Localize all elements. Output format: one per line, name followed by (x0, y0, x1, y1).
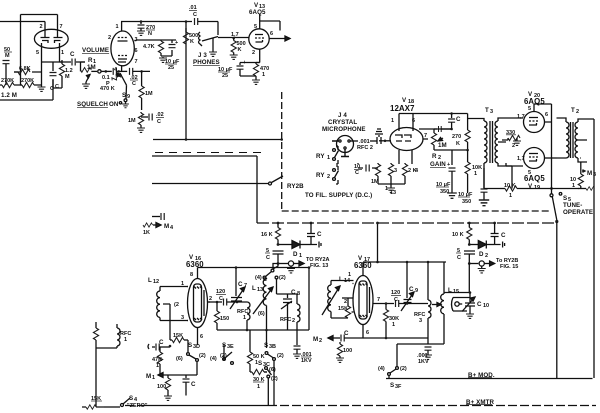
switch S5 junction (555, 220, 558, 223)
wire V19 grid (506, 163, 523, 166)
wire bus A y139 (153, 139, 282, 141)
wire V17 plate rail lower (397, 343, 428, 345)
svg-text:C: C (409, 286, 414, 293)
choke RFC3 (414, 296, 431, 344)
svg-text:100: 100 (343, 348, 352, 354)
label VOLUME (82, 47, 109, 54)
svg-text:1,7: 1,7 (517, 114, 525, 120)
svg-text:RFC 2: RFC 2 (357, 145, 373, 151)
svg-text:S: S (390, 382, 394, 389)
svg-text:C: C (317, 231, 322, 238)
svg-text:2: 2 (319, 338, 322, 344)
wire bus C y183 (152, 183, 268, 185)
meter tap M4 (152, 213, 164, 220)
meter M2 arrow (313, 336, 336, 345)
svg-text:5: 5 (528, 106, 531, 112)
svg-text:3E: 3E (227, 344, 234, 350)
variable capacitor C10 (462, 291, 489, 318)
svg-text:CRYSTAL: CRYSTAL (328, 119, 357, 126)
svg-text:C: C (238, 281, 243, 288)
svg-text:(2: (2 (174, 302, 179, 308)
svg-text:10 K: 10 K (452, 232, 464, 238)
capacitor .001 1KV right (417, 344, 432, 365)
svg-text:RY2B: RY2B (287, 183, 304, 190)
svg-text:TO FIL. SUPPLY (D.C.): TO FIL. SUPPLY (D.C.) (305, 192, 372, 199)
label B+ MOD (468, 372, 495, 379)
svg-text:(6): (6) (269, 367, 276, 373)
wire top rail (21, 14, 58, 16)
capacitor .01 C (189, 5, 218, 35)
svg-text:+: + (175, 40, 178, 46)
svg-text:350: 350 (440, 189, 449, 195)
svg-text:120: 120 (391, 290, 400, 296)
svg-text:270: 270 (452, 134, 461, 140)
svg-text:6: 6 (270, 31, 273, 37)
resistor 500K second (230, 38, 246, 59)
svg-text:OPERATE: OPERATE (563, 209, 593, 216)
jack to RY2A (277, 257, 330, 273)
svg-text:3B: 3B (269, 344, 276, 350)
coil L13 (252, 278, 273, 330)
transformer T3 (468, 107, 506, 168)
svg-text:7: 7 (60, 24, 63, 30)
svg-text:5: 5 (36, 50, 39, 56)
svg-text:T: T (485, 107, 489, 114)
capacitor 50 M left edge (3, 47, 13, 85)
relay contact RY2B (269, 176, 305, 190)
wire squelch node (134, 40, 136, 42)
wire grid rail y20 (121, 21, 192, 23)
svg-text:270K: 270K (1, 78, 14, 84)
switch S3A lower (255, 264, 286, 284)
wire bus B shielded y156 (152, 153, 261, 157)
svg-text:N: N (148, 31, 152, 37)
svg-text:9: 9 (415, 288, 418, 294)
svg-text:C: C (157, 119, 161, 125)
wire S3C riser (224, 344, 268, 406)
resistor 100 M2 (337, 342, 352, 358)
svg-text:13: 13 (257, 287, 263, 293)
capacitor 270 N to ground (137, 22, 155, 38)
coil L14 (322, 276, 354, 318)
choke RFC1 mid (237, 302, 250, 330)
svg-text:S: S (563, 195, 567, 202)
svg-text:1K: 1K (143, 230, 150, 236)
svg-text:GAIN: GAIN (430, 161, 446, 168)
svg-text:12AX7: 12AX7 (390, 104, 415, 113)
coupling capacitor C (60, 51, 86, 66)
microphone J4 (332, 136, 354, 157)
choke RFC2 V16 (280, 294, 300, 330)
label J4 CRYSTAL MICROPHONE (322, 112, 366, 133)
svg-text:L: L (339, 276, 343, 283)
svg-text:K: K (190, 39, 194, 45)
switch S3E (210, 342, 234, 364)
svg-text:S: S (122, 92, 126, 99)
feedthrough capacitor RFC2 (375, 129, 383, 144)
resistor 330 2 (502, 130, 520, 149)
svg-text:470 K: 470 K (100, 86, 115, 92)
resistor 16K (261, 223, 281, 245)
wire V20 plate (534, 104, 552, 122)
svg-text:15K: 15K (338, 306, 348, 312)
wire V18 bottom row (378, 184, 405, 188)
svg-text:ON: ON (109, 101, 119, 108)
resistor 10K D2 (452, 223, 472, 245)
svg-text:(2): (2) (271, 376, 278, 382)
ground V13 cathode (252, 80, 260, 84)
resistor 270K b (20, 78, 41, 88)
svg-text:T: T (571, 107, 575, 114)
wire left column (96, 348, 117, 407)
svg-text:25: 25 (168, 65, 174, 71)
svg-text:SQUELCH: SQUELCH (77, 101, 108, 108)
svg-text:C: C (132, 81, 136, 87)
svg-text:S: S (258, 360, 262, 367)
svg-text:2: 2 (292, 318, 295, 324)
wire top-left vertical (20, 15, 22, 73)
svg-text:1: 1 (61, 50, 64, 56)
svg-text:25: 25 (222, 73, 228, 79)
wire bus D y224 (257, 222, 557, 224)
svg-text:13: 13 (390, 190, 396, 196)
node C (55, 84, 59, 90)
capacitor 120 C plate (209, 289, 248, 306)
svg-text:B+ MOD.: B+ MOD. (468, 372, 495, 379)
jack J3 PHONES (193, 32, 220, 66)
svg-text:1.2 M: 1.2 M (1, 92, 17, 99)
tube V17 6360 (344, 255, 380, 338)
diode D2 (468, 241, 495, 260)
capacitor coupling pin7 (419, 126, 453, 132)
tube V13 6AQ5 (249, 2, 280, 56)
resistor 1M2 V18 (385, 163, 396, 196)
svg-text:(6): (6) (176, 356, 183, 362)
ground V18 (387, 188, 395, 192)
wire cathode rail V19 V20 (484, 166, 512, 189)
resistor 10K 1 output (500, 183, 579, 199)
resistor 30K V17 (383, 302, 399, 338)
wire J3 to V13 grid (218, 37, 249, 39)
svg-text:6: 6 (366, 330, 369, 336)
junction dot busA x186 (185, 138, 188, 141)
junction dot D2 bus (468, 222, 471, 225)
svg-text:100: 100 (157, 384, 166, 390)
svg-text:C: C (344, 330, 349, 337)
switch S3F (378, 366, 407, 390)
switch S5 pole1 (550, 193, 562, 221)
svg-text:1: 1 (299, 253, 302, 259)
jack to RY2B (468, 258, 518, 273)
svg-text:1,7: 1,7 (517, 156, 525, 162)
resistor 15K bottom (170, 333, 188, 343)
resistor 50K 1 (247, 350, 264, 372)
tube V15 squelch (108, 22, 138, 74)
svg-text:M: M (146, 373, 151, 380)
svg-text:2: 2 (40, 24, 43, 30)
resistor 6.8K (14, 66, 36, 75)
svg-text:2: 2 (209, 296, 212, 302)
ground M1 (164, 396, 172, 400)
wire M3 vertical (593, 119, 595, 378)
wire B+ XMTR rail dashed (125, 405, 596, 407)
svg-text:10: 10 (483, 303, 489, 309)
svg-text:1: 1 (327, 155, 330, 161)
svg-text:RY: RY (316, 153, 325, 160)
wire bus to V17 rail (376, 222, 379, 264)
svg-text:6AQ5: 6AQ5 (524, 174, 545, 183)
resistor 10 1 output (578, 187, 594, 191)
capacitor C V18 (448, 114, 461, 130)
svg-text:RFC: RFC (280, 317, 291, 323)
svg-text:1: 1 (152, 375, 155, 381)
junction dot busA x282 (280, 138, 283, 141)
wire long vertical x186 (185, 22, 187, 140)
capacitor .02 C (141, 112, 164, 125)
resistor 15K S4 (82, 396, 104, 409)
resistor 1M upper (139, 71, 153, 110)
connector plug D1 (311, 242, 321, 248)
svg-text:J 3: J 3 (198, 52, 207, 59)
capacitor 10uF 25 (161, 40, 180, 71)
svg-text:S: S (129, 395, 133, 402)
svg-text:1KV: 1KV (418, 359, 429, 365)
capacitor 120 C V17 plate (375, 290, 429, 307)
capacitor C8 (277, 279, 301, 330)
wire V13 plate out with arrow (269, 36, 290, 41)
capacitor .001 inline (350, 139, 377, 151)
wire bus B vertical (256, 156, 258, 223)
resistor 2K cathode (402, 163, 416, 184)
switch S3C (258, 360, 278, 382)
resistor 30K 1 (250, 369, 267, 390)
tube V20 6AQ5 (517, 91, 548, 133)
svg-text:3: 3 (394, 168, 397, 174)
svg-text:2: 2 (108, 35, 111, 41)
capacitor 5 C D2 (456, 248, 475, 264)
wire D1 node down (273, 264, 278, 270)
svg-text:C: C (457, 255, 461, 261)
svg-text:D: D (479, 251, 484, 258)
wire R2 row (434, 149, 469, 162)
resistor 4.7K (136, 40, 176, 56)
ground 330 (513, 138, 521, 145)
svg-text:1: 1 (391, 118, 394, 124)
resistor 1K to M4 (143, 223, 174, 237)
svg-text:120: 120 (216, 289, 225, 295)
svg-text:C: C (291, 289, 296, 296)
svg-text:2 K: 2 K (408, 168, 417, 174)
svg-text:2: 2 (512, 143, 515, 149)
capacitor 0.1 (102, 68, 119, 87)
capacitor 10 C grid (354, 163, 378, 176)
svg-text:S: S (264, 342, 268, 349)
svg-text:VOLUME: VOLUME (82, 47, 109, 54)
svg-text:C: C (159, 339, 164, 346)
svg-text:(4): (4) (378, 366, 385, 372)
svg-text:D: D (293, 251, 298, 258)
svg-text:C: C (70, 51, 75, 58)
svg-text:1: 1 (116, 24, 119, 30)
output link jack (452, 298, 471, 312)
box corner lines (0, 79, 53, 100)
resistor 1M V18 grid (371, 163, 381, 185)
svg-text:J 4: J 4 (338, 112, 347, 119)
coil L12 (148, 277, 188, 340)
svg-text:C: C (456, 116, 461, 123)
svg-text:C: C (219, 296, 223, 302)
wire V16 bottom rail (217, 268, 309, 332)
svg-text:12: 12 (153, 279, 159, 285)
wire V16 top rail (198, 266, 311, 269)
junction dot 186 (185, 20, 188, 23)
ground 4.7K cluster (159, 57, 167, 62)
label TO FIL SUPPLY (305, 192, 372, 199)
svg-text:1M: 1M (145, 91, 153, 97)
wire V17 bottom rail (363, 337, 428, 340)
resistor 270K a (0, 78, 22, 88)
svg-text:RY: RY (316, 172, 325, 179)
svg-text:R: R (432, 153, 437, 160)
connector plug D2 (495, 242, 505, 248)
svg-text:1M: 1M (438, 142, 447, 149)
svg-text:270K: 270K (21, 78, 34, 84)
svg-text:M: M (65, 74, 70, 80)
wire V20 grid (506, 117, 523, 119)
svg-text:1: 1 (392, 322, 395, 328)
svg-text:FIG. 15: FIG. 15 (500, 264, 518, 270)
label S5 TUNE-OPERATE (563, 195, 593, 216)
svg-text:(4): (4) (210, 356, 217, 362)
svg-text:MICROPHONE: MICROPHONE (322, 126, 366, 133)
potentiometer R1 1M (81, 57, 106, 82)
junction dot 16K bus (277, 222, 280, 225)
capacitor 5 C D1 (265, 248, 284, 264)
wire S3D (188, 340, 197, 375)
svg-text:1: 1 (243, 315, 246, 321)
potentiometer R2 GAIN (430, 129, 452, 168)
svg-text:1: 1 (156, 363, 159, 369)
resistor 15K V17 (338, 298, 351, 318)
svg-text:(4): (4) (255, 275, 262, 281)
svg-text:3F: 3F (395, 384, 402, 390)
choke RFC1 left (117, 324, 131, 348)
label 1.2 M (1, 92, 17, 99)
tube V19 6AQ5 (517, 148, 545, 192)
wire chassis dashed vertical x282 (281, 92, 283, 211)
capacitor C grid V16 (148, 339, 171, 351)
capacitor 10uF 350 a (434, 150, 457, 198)
svg-text:8: 8 (190, 272, 193, 278)
svg-text:K: K (238, 47, 242, 53)
svg-text:10 K: 10 K (504, 183, 516, 189)
svg-text:6: 6 (545, 112, 548, 118)
ground 1M (137, 128, 145, 132)
variable capacitor C9 (401, 262, 418, 311)
switch S3B (264, 342, 284, 406)
svg-text:M: M (5, 53, 10, 59)
tube V16 6360 (181, 254, 212, 345)
wire V18 plate rail (413, 112, 468, 115)
svg-text:16 K: 16 K (261, 232, 273, 238)
svg-text:1M: 1M (128, 118, 136, 124)
wire S3F riser (389, 344, 397, 379)
wire V19 plate (545, 157, 557, 159)
wire tube1 cathode row (42, 62, 63, 88)
resistor left column (93, 322, 98, 348)
wire V17 grid tap (342, 297, 354, 299)
svg-text:7: 7 (424, 133, 427, 139)
wire mic to grid (379, 140, 391, 143)
relay RY1 (316, 146, 339, 164)
svg-text:C: C (191, 381, 196, 388)
svg-text:(2): (2) (199, 353, 206, 359)
capacitor .02 C wire (119, 68, 150, 87)
capacitor C D1 bus (307, 222, 322, 245)
resistor 150 (214, 302, 229, 330)
svg-text:3: 3 (419, 318, 422, 324)
wire V17 top rail (363, 261, 446, 296)
svg-text:5: 5 (254, 24, 257, 30)
svg-text:1: 1 (257, 384, 260, 390)
svg-text:6: 6 (412, 118, 415, 124)
svg-text:+: + (243, 60, 246, 66)
capacitor C D2 bus (491, 222, 506, 245)
svg-text:PHONES: PHONES (193, 59, 220, 66)
svg-text:15K: 15K (173, 333, 183, 339)
coil L15 (428, 262, 470, 344)
wire left row (14, 62, 42, 85)
ground left (38, 85, 46, 91)
wire left edge grid feed (0, 21, 45, 23)
svg-text:C: C (394, 297, 398, 303)
tube V14 dual triode (34, 15, 68, 63)
svg-text:K: K (456, 141, 460, 147)
svg-text:4.7K: 4.7K (143, 44, 155, 50)
svg-text:B+ XMTR: B+ XMTR (466, 399, 494, 406)
svg-text:M: M (587, 170, 592, 177)
svg-text:1M: 1M (87, 64, 96, 71)
ground M2 (336, 358, 344, 362)
wire B+ MOD rail (386, 378, 593, 380)
svg-text:7: 7 (135, 59, 138, 65)
svg-text:1: 1 (124, 337, 127, 343)
variable capacitor C7 (230, 268, 247, 310)
resistor 270K (452, 114, 470, 151)
svg-text:7: 7 (244, 283, 247, 289)
svg-text:(6): (6) (258, 311, 265, 317)
switch S9 (119, 85, 130, 108)
svg-text:L: L (252, 285, 256, 292)
capacitor 10uF 25 cathode (218, 60, 256, 79)
svg-text:9: 9 (127, 94, 130, 100)
resistor 100 M1 (157, 375, 171, 396)
label SQUELCH ON (77, 101, 119, 108)
meter M1 line (146, 373, 197, 382)
wire electrolytic row (451, 149, 453, 151)
svg-text:C: C (55, 84, 59, 90)
svg-text:2: 2 (576, 109, 579, 115)
svg-text:C: C (266, 255, 270, 261)
meter M3 arrow (578, 119, 596, 178)
resistor 1M lower (128, 112, 144, 128)
switch S4 ZERO (104, 395, 148, 409)
relay RY2 (316, 166, 339, 184)
junction dot 141 (140, 20, 143, 23)
svg-text:1KV: 1KV (301, 358, 312, 364)
svg-text:FIG. 13: FIG. 13 (310, 263, 328, 269)
ground R1 (82, 82, 90, 88)
